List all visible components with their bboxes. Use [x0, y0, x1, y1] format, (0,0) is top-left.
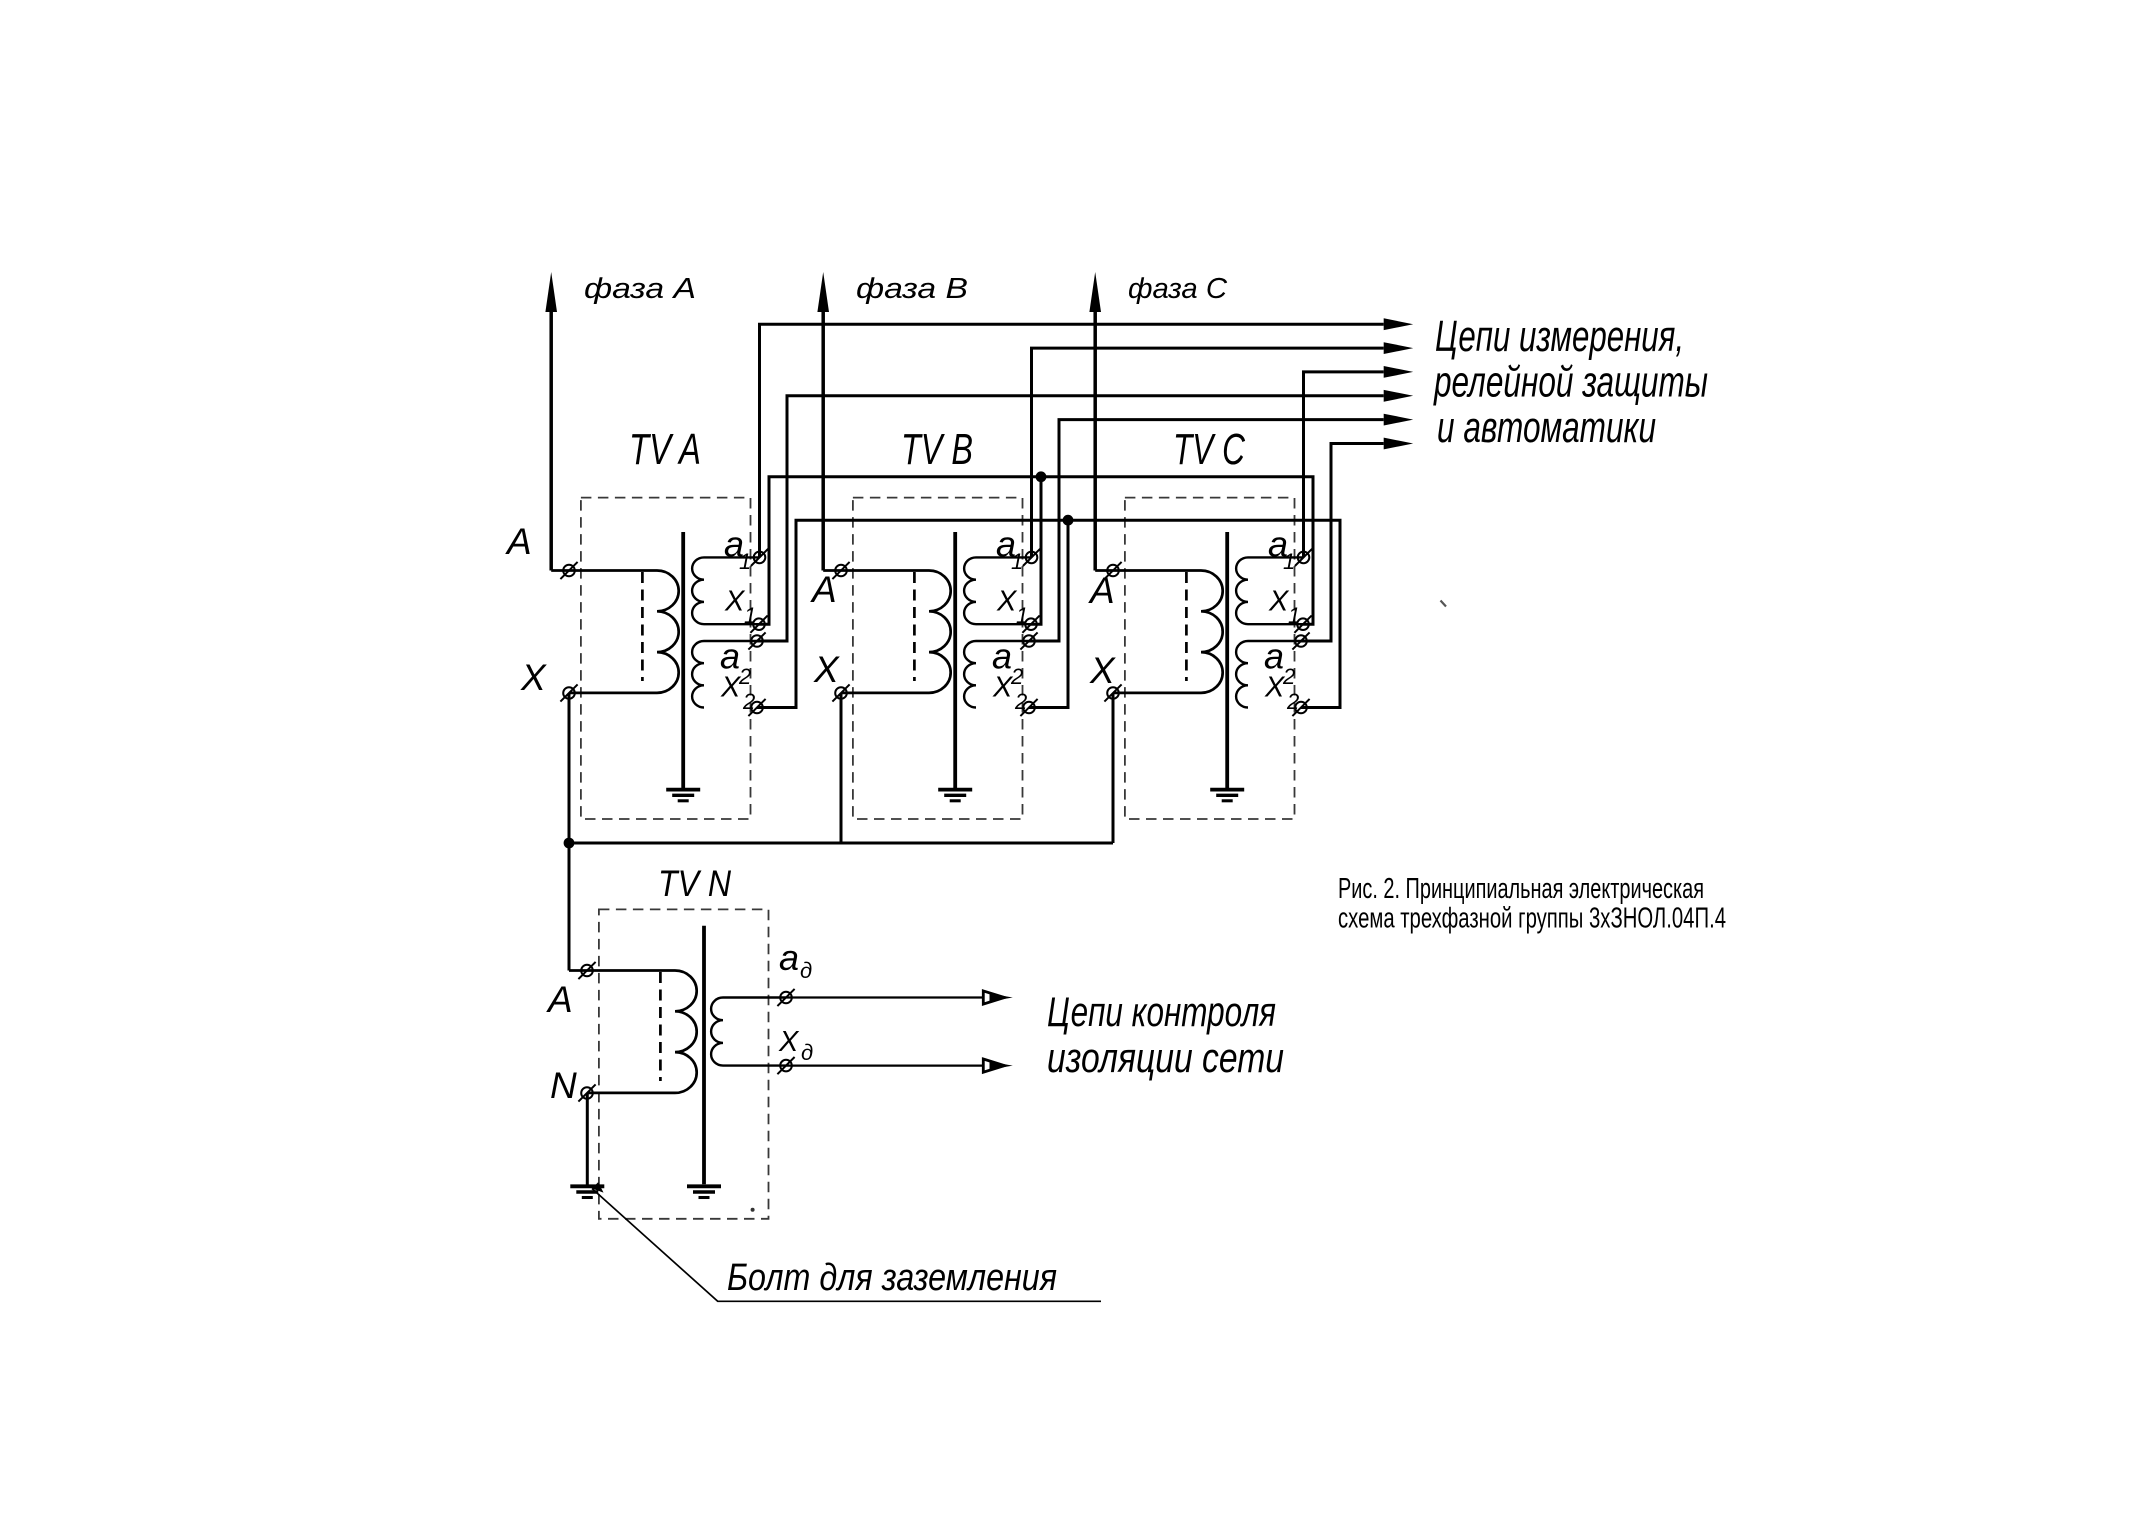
svg-text:д: д [801, 1040, 813, 1065]
wire TV C a2 to output line 6 [1301, 444, 1384, 642]
svg-text:и автоматики: и автоматики [1437, 403, 1656, 452]
terminal X of TV B [835, 687, 847, 699]
TV N core with screen [702, 926, 706, 1185]
TV A secondary winding a2-x2 [692, 641, 757, 708]
svg-text:1: 1 [744, 603, 756, 628]
wire TV C X drop to neutral bus [1112, 693, 1115, 843]
svg-text:изоляции сети: изоляции сети [1047, 1034, 1284, 1081]
terminal x2 of TV A [751, 702, 763, 714]
svg-text:1: 1 [1016, 603, 1028, 628]
TV C primary inner dashed line [1185, 572, 1188, 681]
terminal xd of TV N [780, 1060, 792, 1072]
stray tick mark [1441, 601, 1447, 607]
terminal x1 of TV C [1297, 618, 1309, 630]
terminal x2 of TV B [1023, 702, 1035, 714]
svg-text:2: 2 [742, 689, 755, 714]
junction x2 bus / TV B [1063, 515, 1074, 526]
terminal A of TV C [1107, 565, 1119, 577]
terminal X of TV C [1107, 687, 1119, 699]
svg-text:фаза С: фаза С [1128, 273, 1228, 305]
svg-text:А: А [810, 569, 837, 610]
svg-text:X: X [992, 672, 1014, 704]
transformer TV C primary winding [1095, 571, 1223, 693]
TV A core with screen [681, 532, 685, 789]
svg-text:Рис. 2. Принципиальная электри: Рис. 2. Принципиальная электрическая [1338, 873, 1704, 905]
svg-text:X: X [724, 586, 746, 618]
svg-text:X: X [813, 649, 840, 690]
svg-text:TV В: TV В [901, 425, 973, 474]
svg-text:Цепи контроля: Цепи контроля [1047, 988, 1276, 1035]
terminal a1 of TV B [1026, 552, 1038, 564]
terminal a2 of TV B [1023, 635, 1035, 647]
transformer TV A enclosure (dashed box) [581, 498, 751, 819]
svg-text:а: а [720, 636, 740, 677]
terminal a2 of TV C [1295, 635, 1307, 647]
wire TV N terminal N to ground [586, 1093, 589, 1185]
terminal A of TV B [835, 565, 847, 577]
wire x1 star bus (connects x1 of TV A, TV B, TV C) [759, 477, 1313, 624]
terminal a1 of TV A [754, 552, 766, 564]
svg-text:фаза В: фаза В [856, 273, 968, 305]
svg-text:X: X [1268, 586, 1290, 618]
svg-text:1: 1 [1288, 603, 1300, 628]
wire neutral bus X (bottom horizontal) [569, 842, 1113, 845]
svg-text:N: N [550, 1065, 577, 1106]
terminal a1 of TV C [1298, 552, 1310, 564]
svg-text:1: 1 [1283, 549, 1295, 574]
TV N primary inner dashed line [659, 972, 662, 1081]
terminal A of TV A [563, 565, 575, 577]
svg-text:Цепи измерения,: Цепи измерения, [1435, 312, 1684, 361]
terminal ad of TV N [780, 992, 792, 1004]
svg-text:а: а [992, 636, 1012, 677]
svg-text:TV N: TV N [658, 863, 731, 904]
wire TV B X drop to neutral bus [840, 693, 843, 843]
svg-text:X: X [1089, 650, 1116, 691]
svg-text:X: X [996, 586, 1018, 618]
TV B secondary winding a1-x1 [964, 557, 1031, 624]
wire TV B a2 to output line 5 [1029, 420, 1384, 641]
wire TV A a1 riser to output line 1 [760, 324, 1384, 557]
wire x2 star bus (connects x2 of TV A, TV B, TV C) [757, 520, 1340, 707]
svg-text:релейной защиты: релейной защиты [1433, 358, 1708, 407]
svg-text:1: 1 [739, 549, 751, 574]
terminal X of TV A [563, 687, 575, 699]
phase line fase C (vertical wire with arrow) [1093, 312, 1097, 571]
TV A primary inner dashed line [641, 572, 644, 681]
svg-text:X: X [520, 657, 547, 698]
svg-text:TV С: TV С [1173, 425, 1246, 474]
svg-text:1: 1 [1011, 549, 1023, 574]
terminal x2 of TV C [1295, 702, 1307, 714]
terminal x1 of TV A [753, 618, 765, 630]
wire TV B x2 tap [1029, 520, 1068, 707]
terminal A of TV N [581, 965, 593, 977]
TV C secondary winding a2-x2 [1236, 641, 1301, 708]
phase line fase B (vertical wire with arrow) [821, 312, 825, 571]
TV A core ground [666, 788, 700, 792]
svg-text:X: X [778, 1026, 800, 1058]
junction neutral bus / TV N feed [564, 838, 575, 849]
wire TV B a1 riser to output line 2 [1032, 348, 1384, 557]
svg-text:фаза А: фаза А [584, 273, 696, 305]
svg-text:а: а [779, 937, 799, 978]
junction x1 bus / TV B [1036, 471, 1047, 482]
svg-text:X: X [720, 672, 742, 704]
transformer TV C enclosure (dashed box) [1125, 498, 1295, 819]
TV A secondary winding a1-x1 [692, 557, 759, 624]
svg-text:2: 2 [1286, 689, 1299, 714]
wire TV A X drop to neutral bus [568, 693, 571, 843]
transformer TV B enclosure (dashed box) [853, 498, 1023, 819]
TV C secondary winding a1-x1 [1236, 557, 1303, 624]
svg-text:Болт для заземления: Болт для заземления [727, 1257, 1057, 1299]
terminal x1 of TV B [1025, 618, 1037, 630]
terminal a2 of TV A [751, 635, 763, 647]
wire TV A a2 to output line 4 [757, 396, 1384, 641]
TV B secondary winding a2-x2 [964, 641, 1029, 708]
TV N secondary winding ad-xd [711, 998, 786, 1066]
TV B core with screen [953, 532, 957, 789]
TV N core ground [687, 1184, 721, 1188]
svg-text:TV A: TV A [629, 425, 701, 474]
svg-text:X: X [1264, 672, 1286, 704]
transformer TV B primary winding [823, 571, 951, 693]
svg-text:А: А [1088, 570, 1115, 611]
phase line fase A (vertical wire with arrow) [549, 312, 553, 571]
svg-text:д: д [800, 958, 812, 983]
terminal N of TV N [581, 1087, 593, 1099]
TV C core with screen [1225, 532, 1229, 789]
wire TV C a1 riser to output line 3 [1304, 372, 1384, 558]
svg-text:схема трехфазной группы 3хЗНОЛ: схема трехфазной группы 3хЗНОЛ.04П.4 [1338, 903, 1726, 935]
svg-text:а: а [1264, 636, 1284, 677]
svg-text:А: А [546, 979, 573, 1020]
wire TV N ad to insulation-control output (open arrow) [786, 996, 990, 998]
TV B primary inner dashed line [913, 572, 916, 681]
stray dot in TV N box [751, 1208, 755, 1212]
wire TV B x1 tap [1031, 477, 1041, 624]
transformer TV N primary winding [569, 971, 697, 1093]
svg-text:2: 2 [1014, 689, 1027, 714]
transformer TV N enclosure (dashed box) [599, 909, 769, 1218]
svg-text:А: А [505, 521, 532, 562]
transformer TV A primary winding [551, 571, 679, 693]
wire TV N xd to insulation-control output (open arrow) [786, 1064, 990, 1066]
TV B core ground [938, 788, 972, 792]
TV N bolt ground symbol [570, 1184, 604, 1188]
wire neutral bus to TV N terminal A [568, 843, 571, 971]
TV C core ground [1210, 788, 1244, 792]
leader line to grounding bolt [592, 1189, 1101, 1302]
